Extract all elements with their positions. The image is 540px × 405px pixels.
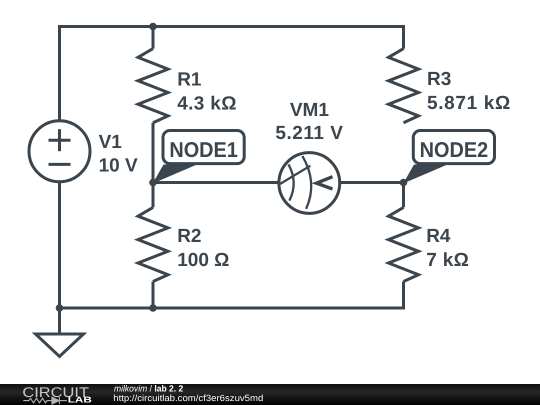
CircuitLab logo resistor-diode glyph: [23, 397, 67, 404]
voltmeter VM1: [279, 153, 340, 214]
junction node B (NODE2) dot: [400, 179, 408, 187]
label V1 value: [99, 132, 138, 176]
node NODE2 label box: [413, 131, 494, 164]
wire R2 top lead: [152, 183, 155, 208]
node NODE1 label box: [163, 131, 244, 164]
svg-text:4.3 kΩ: 4.3 kΩ: [177, 93, 237, 114]
label R3 value: [427, 69, 511, 114]
resistor R2: [138, 207, 168, 281]
voltage source V1: [29, 121, 90, 182]
svg-text:LAB: LAB: [68, 395, 92, 405]
svg-text:VM1: VM1: [290, 100, 330, 121]
svg-text:NODE1: NODE1: [169, 138, 238, 162]
svg-text:7 kΩ: 7 kΩ: [426, 250, 469, 271]
svg-text:R3: R3: [427, 69, 451, 90]
svg-text:R4: R4: [426, 226, 451, 247]
node NODE2 flag tail: [403, 165, 447, 184]
svg-text:http://circuitlab.com/cf3er6sz: http://circuitlab.com/cf3er6szuv5md: [113, 393, 263, 403]
wire middle: [153, 123, 278, 183]
svg-text:5.211 V: 5.211 V: [275, 123, 343, 144]
svg-text:10 V: 10 V: [99, 155, 138, 176]
label VM1 value: [275, 100, 343, 144]
svg-text:V1: V1: [99, 132, 123, 153]
junction dot top: [149, 23, 157, 31]
wire bottom: [60, 182, 404, 308]
wire top: [60, 27, 404, 121]
svg-text:R2: R2: [177, 226, 201, 247]
resistor R4: [389, 207, 419, 281]
wire R2 bottom lead: [152, 282, 155, 309]
footer bar: [0, 384, 540, 405]
svg-text:5.871 kΩ: 5.871 kΩ: [427, 93, 511, 114]
wire middle right: [341, 183, 404, 208]
CircuitLab logo wordmark: [22, 384, 91, 405]
ground: [36, 308, 84, 357]
svg-text:NODE2: NODE2: [420, 138, 489, 162]
svg-text:milkovim / lab 2. 2: milkovim / lab 2. 2: [114, 384, 183, 394]
svg-text:100 Ω: 100 Ω: [177, 250, 229, 271]
resistor R1: [138, 49, 168, 123]
label R4 value: [426, 226, 469, 271]
junction dot bottom left: [56, 304, 64, 312]
label R1 value: [177, 69, 237, 114]
svg-text:R1: R1: [177, 69, 202, 90]
wire R1 top lead: [152, 27, 155, 49]
resistor R3: [389, 49, 419, 123]
label R2 value: [177, 226, 229, 271]
junction node A (NODE1) dot: [149, 179, 157, 187]
node NODE1 flag tail: [153, 165, 197, 184]
junction dot bottom R2: [149, 304, 157, 312]
